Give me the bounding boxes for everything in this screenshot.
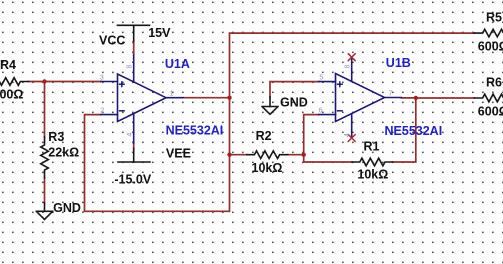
svg-text:GND: GND [53, 201, 81, 215]
svg-text:4: 4 [344, 133, 351, 137]
svg-text:R5: R5 [486, 10, 502, 24]
svg-text:NE5532AI: NE5532AI [385, 124, 443, 138]
svg-text:4: 4 [127, 133, 134, 137]
svg-text:600Ω: 600Ω [478, 105, 503, 119]
svg-text:6: 6 [319, 108, 323, 115]
svg-text:600Ω: 600Ω [0, 88, 23, 102]
svg-text:7: 7 [389, 90, 393, 97]
svg-text:3: 3 [100, 75, 104, 82]
svg-text:R4: R4 [0, 58, 16, 72]
svg-text:-15.0V: -15.0V [114, 172, 151, 186]
svg-text:22kΩ: 22kΩ [48, 146, 79, 160]
svg-text:U1B: U1B [386, 56, 411, 70]
svg-text:8: 8 [345, 64, 352, 68]
svg-text:1: 1 [170, 91, 174, 98]
svg-text:U1A: U1A [165, 57, 190, 71]
svg-text:8: 8 [126, 64, 133, 68]
svg-text:R1: R1 [364, 140, 380, 154]
svg-text:R2: R2 [256, 129, 272, 143]
svg-text:15V: 15V [148, 26, 171, 40]
svg-text:R3: R3 [48, 130, 64, 144]
svg-text:NE5532AI: NE5532AI [166, 124, 224, 138]
svg-text:VCC: VCC [99, 34, 125, 48]
svg-text:5: 5 [319, 75, 323, 82]
svg-text:2: 2 [100, 108, 104, 115]
svg-text:VEE: VEE [166, 146, 191, 160]
svg-text:10kΩ: 10kΩ [252, 161, 283, 175]
svg-text:R6: R6 [486, 75, 502, 89]
svg-text:600Ω: 600Ω [478, 40, 503, 54]
svg-text:10kΩ: 10kΩ [357, 167, 388, 181]
svg-text:GND: GND [280, 95, 308, 109]
